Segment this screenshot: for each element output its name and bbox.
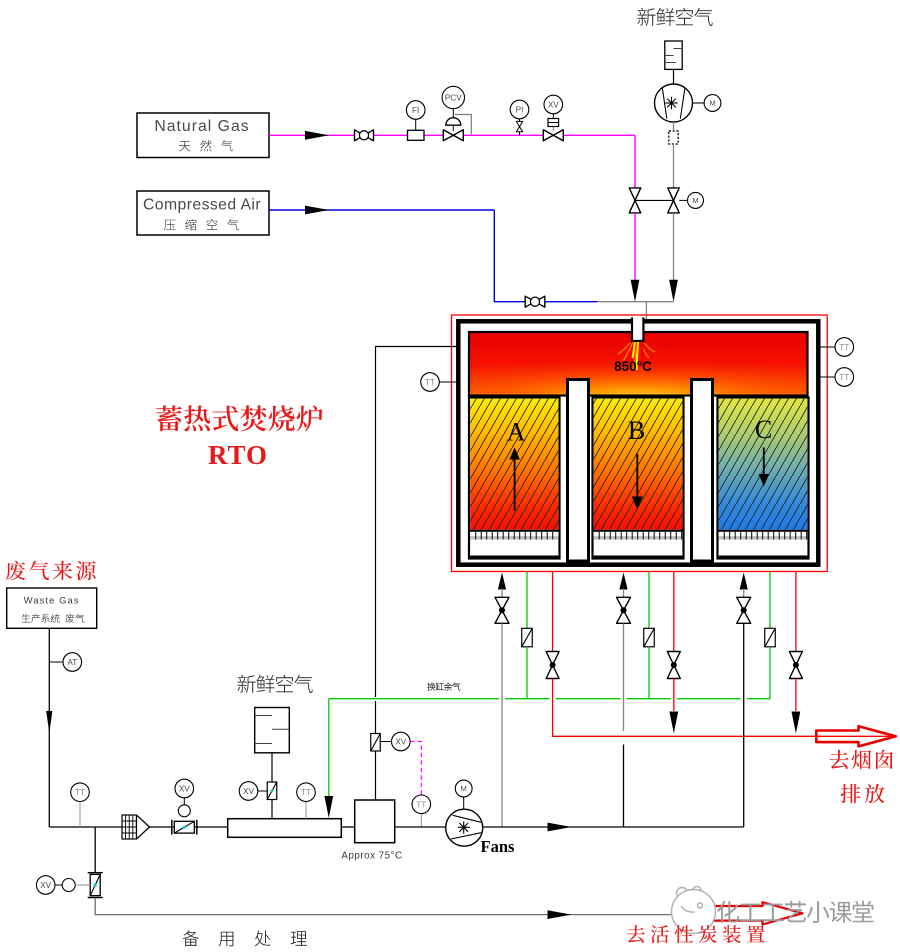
regenerator chamber A bed [469, 398, 560, 559]
label 去烟囱 [829, 750, 893, 770]
svg-text:AT: AT [67, 658, 77, 667]
exhaust pipe B [673, 572, 675, 652]
pipe B inlet lower [623, 745, 625, 828]
chamber bottom line A [470, 556, 558, 558]
flow arrow chamber A up [509, 448, 519, 511]
instrument XV waste gas [175, 779, 194, 798]
label 新鲜空气 bottom [238, 675, 313, 693]
solenoid valve XV on gas line [543, 114, 563, 141]
chamber B grate [594, 532, 683, 540]
waste gas arrow [46, 711, 52, 733]
burner feed stub [645, 302, 647, 320]
flow arrow natural gas [305, 131, 329, 140]
flow element FI [408, 130, 425, 140]
purge header green [329, 698, 770, 700]
pipe A inlet [501, 624, 503, 828]
backup branch pipe [94, 827, 96, 873]
mixing chamber box [355, 800, 395, 843]
gas arrow into mixer [631, 280, 640, 302]
discharge arrow [548, 823, 572, 832]
fan motor M [463, 797, 465, 809]
svg-text:Waste Gas: Waste Gas [24, 595, 80, 606]
fan suction lines [341, 826, 354, 828]
butterfly valve waste gas [172, 820, 197, 835]
label 新鲜空气 top [638, 8, 713, 26]
waste gas pipe down [48, 628, 50, 827]
fresh air arrow into mixer [669, 280, 678, 302]
regenerator chamber C bed [718, 398, 809, 559]
svg-text:FI: FI [412, 106, 419, 115]
purge damper C [765, 628, 776, 647]
PCV downstream tap line [455, 115, 471, 135]
backup flow arrow [548, 910, 572, 919]
svg-text:M: M [709, 99, 715, 108]
instrument TT duct [297, 783, 316, 802]
instrument XV backup [36, 876, 55, 895]
label 天然气 [179, 140, 233, 151]
instrument XV gas [544, 95, 563, 114]
svg-text:TT: TT [839, 373, 849, 382]
natural gas pipe drop [634, 135, 636, 188]
inlet arrow chamber B [619, 573, 627, 590]
chamber bottom line C [719, 556, 808, 558]
svg-text:M: M [461, 784, 467, 793]
motor M fan [455, 780, 472, 797]
furnace TT right 1 [817, 346, 836, 348]
furnace TT left [440, 381, 458, 383]
svg-text:B: B [628, 416, 645, 445]
control valve PCV [443, 109, 463, 141]
svg-text:XV: XV [243, 787, 254, 796]
regenerator chamber B bed [593, 398, 684, 559]
label 排放 [841, 784, 885, 803]
fresh air damper [267, 782, 277, 800]
butterfly actuator [178, 805, 190, 817]
svg-text:XV: XV [548, 100, 559, 109]
label 压缩空气 [164, 219, 239, 230]
TT fan inlet [420, 814, 422, 827]
svg-text:Fans: Fans [481, 837, 516, 856]
title 蓄热式焚烧炉 [156, 405, 323, 431]
source box Compressed Air [137, 191, 269, 235]
purge damper A [522, 628, 533, 647]
instrument TT furnace right upper [835, 338, 854, 357]
watermark 化工工艺小课堂 [717, 901, 874, 923]
blower motor M [693, 102, 705, 104]
poppet valve C inlet [737, 597, 751, 623]
fresh air pipe [673, 122, 675, 131]
RTO furnace wall [458, 321, 818, 564]
XV fresh air [258, 790, 267, 792]
pressure gauge PI [516, 119, 522, 135]
svg-text:M: M [692, 196, 698, 205]
poppet valve A exhaust [546, 652, 559, 679]
main fan [446, 809, 483, 846]
burner flame [618, 342, 655, 370]
fresh air valve vertical [668, 188, 680, 213]
manual ball valve natural gas [355, 130, 374, 141]
purge header label 换缸余气 [427, 683, 460, 691]
svg-text:Approx 75°C: Approx 75°C [341, 851, 402, 862]
flow arrow compressed air [305, 206, 329, 215]
flexible connector [669, 131, 678, 144]
instrument TT furnace right lower [835, 368, 854, 387]
mixer header line [597, 301, 674, 303]
svg-text:PCV: PCV [445, 92, 463, 102]
source box Natural Gas [137, 113, 269, 158]
flow arrow chamber B down [632, 454, 643, 510]
waste gas source box [7, 588, 97, 628]
purge pipe B [648, 572, 650, 629]
poppet valve B inlet [617, 597, 631, 623]
fresh air filter bottom [255, 708, 290, 753]
exhaust pipe C [795, 572, 797, 652]
analyzer AT [49, 661, 63, 663]
fresh air filter [665, 41, 682, 69]
instrument XV fresh air [239, 782, 258, 801]
pipe B inlet upper [623, 624, 625, 732]
poppet valve B exhaust [667, 652, 680, 679]
XV bypass [380, 741, 391, 743]
inlet arrow chamber C [740, 573, 748, 590]
svg-text:Compressed Air: Compressed Air [143, 197, 261, 214]
motor M fresh air valve [688, 192, 704, 208]
fan discharge header [483, 826, 744, 828]
instrument TT waste gas [71, 783, 90, 802]
chamber C grate [719, 532, 808, 540]
svg-text:XV: XV [395, 737, 406, 746]
stack arrow outline [816, 726, 896, 746]
motor M blower [704, 95, 721, 112]
svg-text:TT: TT [301, 788, 311, 797]
svg-text:XV: XV [179, 784, 190, 793]
pipe C inlet [743, 624, 745, 828]
fresh air blower [655, 84, 693, 122]
RTO outer red enclosure [452, 315, 828, 572]
svg-text:RTO: RTO [208, 440, 268, 470]
TT waste gas [79, 802, 81, 828]
svg-text:TT: TT [425, 378, 435, 387]
fresh air drop pipe [271, 753, 273, 782]
watermark logo [672, 887, 716, 934]
poppet valve A inlet [495, 597, 509, 623]
purge return arrow [324, 796, 333, 818]
burner nozzle [632, 318, 643, 342]
label 备用处理 [183, 930, 307, 946]
svg-text:A: A [507, 418, 526, 447]
svg-text:TT: TT [839, 343, 849, 352]
hot bypass damper [371, 734, 381, 752]
separator column 1 [568, 380, 589, 562]
backup shutoff valve [88, 873, 103, 898]
instrument AT [63, 653, 82, 672]
svg-text:850°C: 850°C [614, 359, 652, 374]
exhaust arrow C [792, 712, 801, 734]
label 去活性炭装置 [627, 925, 765, 943]
bypass signal dashed [410, 742, 421, 795]
purge damper B [644, 628, 655, 647]
svg-text:C: C [755, 415, 772, 444]
furnace left bypass line [376, 347, 457, 698]
svg-text:Natural Gas: Natural Gas [154, 118, 249, 135]
instrument PCV [442, 86, 464, 108]
instrument TT fan inlet [412, 795, 431, 814]
chamber A grate [470, 532, 558, 540]
activated carbon arrow outline [678, 902, 803, 924]
TT duct [305, 802, 307, 819]
flow arrow chamber C down [759, 448, 769, 487]
inlet arrow chamber A [498, 573, 506, 590]
purge return drop [328, 699, 330, 796]
compressed air pipe [269, 209, 494, 211]
instrument XV bypass [392, 732, 411, 751]
chamber bottom line B [594, 556, 683, 558]
exhaust header red [560, 735, 893, 737]
instrument TT furnace left [421, 373, 440, 392]
furnace TT right 2 [821, 376, 836, 378]
instrument FI [406, 101, 425, 120]
exhaust pipe A [552, 572, 554, 652]
XV backup [55, 884, 62, 886]
poppet valve C exhaust [789, 652, 802, 679]
strainer [122, 815, 150, 839]
purge pipe A [526, 572, 528, 629]
svg-text:PI: PI [516, 105, 524, 114]
exhaust arrow B [669, 712, 678, 734]
backup line to treatment [95, 898, 712, 915]
combustion chamber hot zone [469, 332, 808, 396]
svg-text:TT: TT [75, 788, 85, 797]
instrument PI [510, 100, 529, 119]
mixing duct [228, 819, 342, 838]
valve motor M [679, 199, 687, 201]
title 废气来源 [6, 561, 96, 581]
purge pipe C [769, 572, 771, 629]
valve link line [635, 199, 674, 201]
backup valve actuator [62, 879, 75, 892]
gas shutoff valve vertical [629, 188, 641, 213]
separator column 2 [692, 380, 713, 562]
natural gas pipe [269, 134, 635, 136]
svg-text:XV: XV [40, 881, 51, 890]
ball valve compressed air [525, 296, 545, 307]
svg-text:TT: TT [416, 800, 426, 809]
waste gas main line [49, 826, 227, 828]
